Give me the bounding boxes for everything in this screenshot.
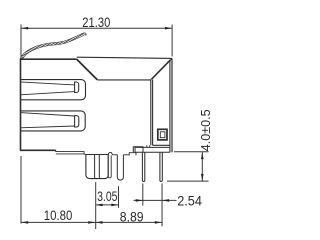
stub 1 [146,145,148,147]
stub 2 [149,145,151,147]
bottom strip left [56,150,84,154]
connector line right of U leg [123,154,129,156]
base band inner vertical [142,147,144,152]
wire latch spring (hatched band) [21,34,85,59]
dim 21.30 extension left [20,25,22,58]
dim 4.0 extension top [174,151,209,153]
slot 1 tongue bottom [20,92,75,95]
body back top edge [77,57,172,58]
block riser left [84,153,86,156]
svg-text:10.80: 10.80 [44,207,73,223]
arrow 8.89 left [96,221,103,224]
arrow 2.54 right (outside) [162,199,169,202]
dim 21.30 extension right [171,25,173,57]
right section bottom edge [153,144,170,146]
slot 1 tongue top [20,82,75,85]
body top front edge [20,58,77,60]
dim 10.80 / 8.89 line [21,221,162,223]
svg-text:2.54: 2.54 [177,192,202,208]
top side front edge [97,79,151,81]
slot 2 tongue bottom [20,126,75,128]
slot 2 tongue top [20,113,75,116]
pin 2 [160,152,162,181]
dim 2.54 extension left [142,184,144,206]
dim 3.05 line [95,204,118,206]
dim 4.0 line [201,152,203,181]
rear corner diagonal outer [152,59,172,79]
slot 1 outer [20,80,86,100]
connector line to U leg [113,154,118,156]
slot 1 end cap [75,82,79,93]
arrow 3.05 right [111,204,118,207]
arrow 21.30 left [21,27,28,30]
svg-text:21.30: 21.30 [82,14,110,30]
slot 2 end cap [75,116,79,127]
dim 21.30 line [21,27,172,29]
chamfer top-left of side [77,59,98,80]
dim 2.54 line with tails [134,199,177,201]
dim 10.80 extension left [20,156,22,224]
arrow 10.80 left [21,221,28,224]
body right edge outer [171,58,173,152]
small square hole outer [158,129,167,140]
small square hole inner [160,132,165,138]
arrow 21.30 right [165,27,172,30]
U leg [117,155,123,181]
arrow 4.0 top [201,152,204,159]
body right edge inner [169,60,171,152]
rear corner diagonal inner [151,60,170,80]
shield leg A with hook [108,152,113,177]
arrow 8.89 right [155,221,162,224]
block (standoff) [86,155,108,179]
arrow 4.0 bottom [201,174,204,181]
svg-text:4.0±0.5: 4.0±0.5 [198,109,213,151]
svg-text:8.89: 8.89 [120,208,144,224]
side face left vertical b [152,79,154,145]
svg-text:3.05: 3.05 [97,188,118,204]
body left edge [20,59,22,150]
dim 4.0 extension bottom [167,180,209,182]
dimension graphics [21,25,209,230]
tab B [129,153,136,156]
block inner vertical 1 [94,155,96,179]
side face left vertical a [150,80,152,145]
arrow 10.80 right [88,221,95,224]
pin 1 [142,152,144,181]
dim 3.05 extension right [118,186,120,208]
arrow 2.54 left (outside) [136,199,143,202]
dim 2.54 extension right [161,184,163,227]
slot 2 outer [20,111,85,131]
block inner vertical 2 [98,155,100,179]
shared extension x=95.4 [95,182,97,229]
body bottom front edge [20,149,56,151]
box C [133,147,143,153]
arrow 3.05 left [96,204,103,207]
base band [135,147,170,152]
